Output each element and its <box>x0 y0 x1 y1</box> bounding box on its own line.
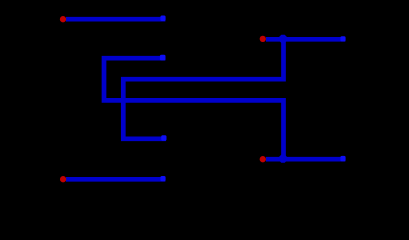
node handle H5 (bright end cap, right end of W5) <box>340 156 345 162</box>
junction J2 (on wire W5) <box>279 155 287 163</box>
wire W1 (top-left horizontal) <box>66 17 165 22</box>
node handle H6 (bright end cap, right end of W6) <box>160 176 165 181</box>
junction J1 (on wire W2) <box>279 35 287 43</box>
node handle H1 (bright end cap, right end of W1) <box>160 16 165 22</box>
wire W2 (top-right horizontal) <box>266 37 345 42</box>
node post P3 (open terminal, red, left end of W5) <box>260 156 266 162</box>
node post P2 (open terminal, red, left end of W2) <box>260 36 266 42</box>
node post P1 (open terminal, red, left end of W1) <box>60 16 66 22</box>
wire W4 (upper-mid stub, down, right, down to J2) <box>104 58 284 159</box>
node post P4 (open terminal, red, left end of W6) <box>60 176 66 182</box>
wire W3 (from J1: down, left, down, then stub right) <box>123 39 283 139</box>
wire W5 (bottom-right horizontal) <box>266 157 345 162</box>
node handle H4 (bright end cap, left stub end of W4) <box>160 55 166 61</box>
wire W6 (bottom-left horizontal) <box>66 177 165 182</box>
node handle H3 (bright end cap, right end of W3 stub) <box>161 135 166 141</box>
node handle H2 (bright end cap, right end of W2) <box>340 36 345 41</box>
